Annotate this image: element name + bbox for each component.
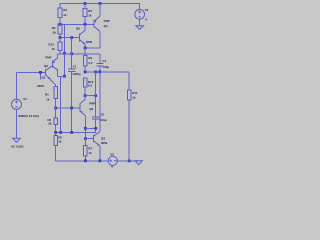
- resistor R2: [47, 108, 57, 132]
- svg-text:1k: 1k: [46, 97, 50, 101]
- node row128-C8col: [94, 127, 97, 130]
- svg-text:PNP: PNP: [89, 102, 95, 106]
- svg-text:C1: C1: [73, 65, 77, 69]
- wire row 95: [85, 95, 96, 97]
- wire row 71.6: [85, 71, 129, 73]
- svg-text:Q4: Q4: [104, 24, 108, 28]
- svg-text:SINE(0 13 10k): SINE(0 13 10k): [18, 114, 39, 118]
- wire Q3 base row: [85, 138, 93, 140]
- resistor R11: [127, 72, 137, 161]
- node base row-C1 line: [70, 107, 73, 110]
- wire node-A drop: [63, 24, 65, 76]
- resistor R10: [48, 38, 61, 54]
- node C8 top: [94, 71, 97, 74]
- node feedback-Q2coll: [59, 131, 62, 134]
- wire row 53 to C4: [58, 54, 101, 64]
- wire base row of Q6: [56, 107, 80, 109]
- resistor R6: [52, 24, 62, 37]
- transistor Q3: [94, 72, 108, 161]
- node rail-Q4: [99, 2, 102, 5]
- node A-row53: [63, 52, 66, 55]
- resistor R5: [54, 132, 63, 160]
- ground under V2: [136, 26, 144, 30]
- wire top rail: [60, 3, 140, 5]
- node R9 bottom: [84, 71, 87, 74]
- transistor Q5: [76, 24, 92, 48]
- transistor Q6: [80, 96, 96, 139]
- svg-text:R7: R7: [88, 147, 92, 151]
- resistor R9: [83, 48, 93, 72]
- node R1 bottom: [54, 107, 57, 110]
- svg-text:100µ: 100µ: [102, 65, 109, 69]
- node Q3 emitter: [98, 159, 101, 162]
- svg-text:V3: V3: [110, 152, 114, 156]
- capacitor C1: [68, 38, 81, 133]
- svg-text:1k: 1k: [52, 47, 56, 51]
- svg-text:Q3: Q3: [101, 136, 105, 140]
- svg-text:1k: 1k: [88, 151, 92, 155]
- svg-text:AC 0.001: AC 0.001: [11, 144, 24, 148]
- svg-text:NPN: NPN: [37, 84, 43, 88]
- node feedback-R5: [54, 131, 57, 134]
- node rail-R4: [84, 2, 87, 5]
- node R11 bottom: [128, 159, 131, 162]
- svg-text:Q5: Q5: [76, 27, 80, 31]
- svg-text:0.2: 0.2: [88, 83, 93, 87]
- ground right: [135, 161, 142, 165]
- svg-text:R6: R6: [52, 26, 56, 30]
- wire Q1 base row (from V1): [17, 71, 46, 73]
- node base row stub: [39, 71, 42, 74]
- node R6 bottom: [59, 36, 62, 39]
- svg-text:2k: 2k: [48, 122, 52, 126]
- node R12 bottom: [84, 94, 87, 97]
- node R7 bottom: [84, 159, 87, 162]
- svg-text:R10: R10: [48, 43, 54, 47]
- svg-text:R1: R1: [45, 93, 49, 97]
- resistor R3: [58, 3, 67, 24]
- node R4 bottom: [84, 23, 87, 26]
- svg-text:100µ: 100µ: [100, 118, 107, 122]
- svg-text:1000µ: 1000µ: [72, 72, 81, 76]
- capacitor C8: [92, 72, 107, 133]
- svg-text:R4: R4: [88, 9, 92, 13]
- wire base row of Q5: [60, 37, 80, 39]
- svg-text:Q6: Q6: [89, 107, 93, 111]
- ground under V1: [13, 138, 21, 142]
- wire feedback row: [56, 131, 96, 133]
- node Q6em-Q3base: [84, 137, 87, 140]
- svg-text:R9: R9: [88, 56, 92, 60]
- svg-text:PNP: PNP: [45, 55, 51, 59]
- node A-row76: [63, 75, 66, 78]
- node C4 bottom: [98, 71, 101, 74]
- voltage source V3: [108, 152, 117, 168]
- svg-text:V1: V1: [23, 97, 27, 101]
- svg-text:0.2: 0.2: [88, 61, 93, 65]
- wire Q2 collector jog: [58, 77, 65, 133]
- svg-text:C4: C4: [102, 59, 106, 63]
- transistor Q4: [94, 3, 110, 48]
- voltage source V1: [11, 72, 39, 148]
- svg-text:1k: 1k: [63, 13, 67, 17]
- svg-text:NPN: NPN: [86, 40, 92, 44]
- voltage source V2: [135, 3, 149, 26]
- svg-text:2k: 2k: [53, 31, 57, 35]
- svg-text:PNP: PNP: [104, 19, 110, 23]
- svg-text:1k: 1k: [58, 140, 62, 144]
- wire Q5 emitter row: [85, 31, 100, 48]
- svg-text:1k: 1k: [88, 14, 92, 18]
- svg-text:Q2: Q2: [44, 64, 48, 68]
- node R3 bottom: [59, 23, 62, 26]
- resistor R1: [45, 86, 57, 108]
- wire ground row: [56, 160, 139, 162]
- resistor R12: [83, 78, 93, 96]
- wire row 128.4: [85, 127, 95, 129]
- node row95-C8col: [94, 94, 97, 97]
- svg-text:NPN: NPN: [101, 141, 107, 145]
- svg-text:R3: R3: [63, 8, 67, 12]
- resistor R4: [83, 3, 92, 24]
- node Q5 emitter: [84, 47, 87, 50]
- capacitor C4: [96, 59, 109, 72]
- wire base row of Q4: [60, 23, 94, 25]
- svg-text:1k: 1k: [132, 96, 136, 100]
- resistor R7: [84, 139, 93, 161]
- transistor Q2: [44, 54, 58, 77]
- svg-text:R11: R11: [132, 91, 138, 95]
- node Q6 emitter row128: [84, 127, 87, 130]
- svg-text:Q1: Q1: [42, 75, 46, 79]
- node feedback-C1line: [70, 131, 73, 134]
- node row53-C1: [70, 52, 73, 55]
- svg-text:V2: V2: [145, 8, 149, 12]
- node C1 top: [70, 36, 73, 39]
- svg-text:C8: C8: [100, 112, 104, 116]
- transistor Q1: [37, 66, 55, 88]
